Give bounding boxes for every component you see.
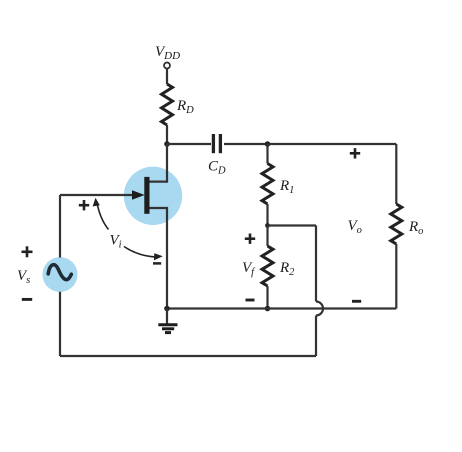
- wire hop over bottom rail: [316, 302, 323, 316]
- svg-text:RD: RD: [176, 98, 194, 116]
- arrowhead Vi upper: [93, 198, 100, 207]
- capacitor CD: [212, 134, 215, 153]
- wire right vertical top: [395, 144, 397, 204]
- wire right vertical bottom: [395, 244, 397, 309]
- node R1 top junction: [265, 141, 271, 147]
- arc Vi lower: [124, 247, 157, 258]
- node VDD terminal: [164, 63, 170, 69]
- source Vs sine symbol: [48, 265, 71, 280]
- wire feedback tap horizontal: [268, 224, 317, 226]
- node R1 R2 junction: [265, 223, 270, 228]
- svg-text:Vf: Vf: [242, 260, 256, 278]
- plus sign Vi: [79, 200, 89, 210]
- minus sign Vs: [22, 298, 32, 301]
- plus sign Vf: [245, 234, 255, 244]
- plus sign Vo: [350, 148, 360, 158]
- gate arrowhead: [132, 190, 145, 199]
- svg-text:Vs: Vs: [17, 268, 30, 286]
- svg-text:Vo: Vo: [348, 218, 362, 236]
- wire bottom feedback rail: [60, 355, 316, 357]
- source Vs highlight circle: [43, 257, 78, 292]
- wire RD to drain rail: [166, 125, 168, 144]
- svg-text:R2: R2: [279, 260, 295, 278]
- resistor R2: [262, 246, 273, 286]
- minus sign Vi: [153, 262, 161, 265]
- arrowhead Vi lower: [154, 253, 163, 260]
- node R2 bottom junction: [265, 306, 271, 312]
- wire VDD to RD: [166, 68, 168, 84]
- node source junction: [164, 306, 170, 312]
- transistor Q1 (JFET) channel bar: [144, 177, 149, 214]
- transistor Q1 drain lead: [150, 144, 168, 182]
- arc Vi upper: [97, 202, 109, 230]
- svg-text:R1: R1: [279, 178, 294, 196]
- minus sign Vf: [246, 299, 255, 302]
- svg-text:Vi: Vi: [110, 233, 122, 251]
- wire feedback tap vertical: [315, 226, 317, 302]
- svg-text:Ro: Ro: [408, 219, 423, 237]
- minus sign Vo: [352, 300, 361, 303]
- svg-text:VDD: VDD: [155, 44, 180, 62]
- transistor Q1 highlight circle: [124, 167, 182, 225]
- wire gate to source top: [59, 195, 61, 258]
- wire junction to R2: [266, 226, 268, 247]
- resistor Ro: [391, 204, 402, 244]
- wire hop to bottom feedback rail: [315, 316, 317, 357]
- wire R1 to junction: [266, 204, 268, 226]
- resistor RD: [162, 84, 173, 125]
- svg-text:CD: CD: [208, 159, 226, 177]
- wire capacitor to top right corner: [224, 143, 396, 145]
- wire gate: [60, 194, 133, 196]
- node drain junction: [164, 141, 170, 147]
- wire bottom rail: [167, 307, 396, 309]
- wire rail to R1: [266, 144, 268, 164]
- plus sign Vs: [22, 246, 33, 257]
- ground: [158, 325, 177, 333]
- resistor R1: [262, 164, 273, 205]
- wire to ground: [166, 309, 168, 325]
- transistor Q1 source lead: [150, 208, 168, 309]
- wire Vs bottom down: [59, 292, 61, 356]
- wire R2 to bottom rail: [266, 286, 268, 309]
- wire drain rail to capacitor: [167, 143, 211, 145]
